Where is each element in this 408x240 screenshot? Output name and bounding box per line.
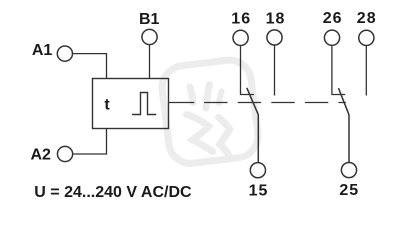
svg-text:B1: B1 <box>139 11 160 28</box>
svg-text:26: 26 <box>323 10 343 27</box>
wire A2 to K1 <box>73 129 106 155</box>
wire B1 to K1 <box>149 45 151 79</box>
pulse symbol <box>132 93 156 115</box>
wire 16 fixed contact <box>241 45 254 94</box>
svg-text:A2: A2 <box>30 146 51 163</box>
terminal A1 <box>57 46 72 61</box>
terminal B1 <box>142 29 157 44</box>
wire 26 fixed contact <box>332 45 345 94</box>
svg-text:A1: A1 <box>32 42 53 59</box>
terminal 25 <box>341 162 356 177</box>
wire 18 fixed contact <box>274 45 276 96</box>
terminal 15 <box>250 163 265 178</box>
svg-text:28: 28 <box>357 10 377 27</box>
svg-text:16: 16 <box>231 10 251 27</box>
mechanical link dashed <box>204 102 346 104</box>
terminal 16 <box>233 30 248 45</box>
svg-text:25: 25 <box>339 182 359 199</box>
svg-text:15: 15 <box>249 182 269 199</box>
contact arm 25 <box>339 88 350 162</box>
terminal 18 <box>267 30 282 45</box>
contact arm 15 <box>247 88 258 163</box>
svg-text:t: t <box>104 97 110 114</box>
timer relay K1 box <box>93 79 169 129</box>
svg-text:18: 18 <box>266 10 286 27</box>
terminal 26 <box>324 30 339 45</box>
svg-text:U = 24...240 V AC/DC: U = 24...240 V AC/DC <box>34 184 192 201</box>
wire K1 output <box>169 102 195 104</box>
terminal A2 <box>57 146 72 161</box>
wire A1 to K1 <box>73 54 106 79</box>
wire 28 fixed contact <box>365 46 367 96</box>
terminal 28 <box>359 30 374 45</box>
